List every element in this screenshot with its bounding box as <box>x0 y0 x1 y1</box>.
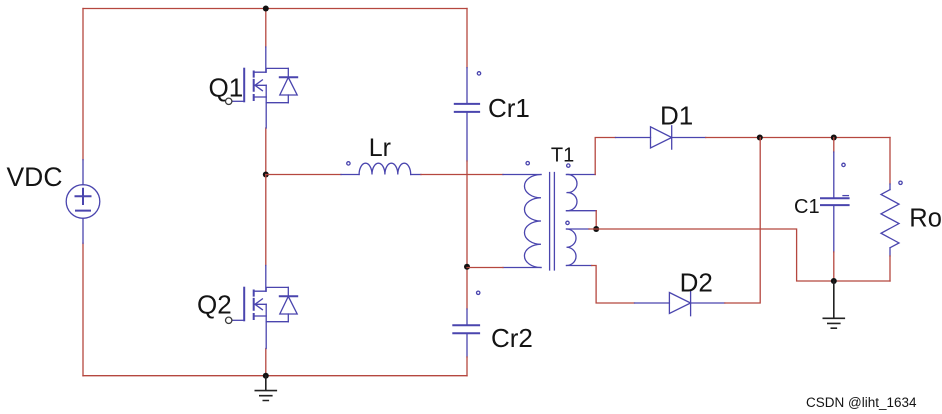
wire node to Lr <box>266 174 341 176</box>
wire Q1 source to node <box>265 128 267 175</box>
svg-text:Ro: Ro <box>909 205 942 233</box>
transformer T1 <box>503 173 596 271</box>
capacitor Cr2 <box>453 309 479 357</box>
wire primary bottom to junction <box>467 267 503 269</box>
wire D2 cathode up to output rail <box>725 138 760 304</box>
wire Cr2 to bottom rail <box>466 357 468 376</box>
capacitor C1 <box>821 138 849 253</box>
svg-text:CSDN @liht_1634: CSDN @liht_1634 <box>806 395 917 410</box>
pin marker Cr2 <box>477 291 480 294</box>
ground under Q2 <box>255 376 276 401</box>
ground under C1 <box>823 281 844 328</box>
pin marker T1 secondary bottom dot <box>566 221 569 224</box>
svg-text:Q1: Q1 <box>209 73 244 103</box>
svg-text:Q2: Q2 <box>197 290 232 320</box>
pin marker Cr1 <box>477 72 480 75</box>
wire top rail <box>83 8 467 10</box>
svg-text:Cr2: Cr2 <box>491 323 533 353</box>
node primary bottom junction <box>464 264 470 270</box>
svg-text:Cr1: Cr1 <box>488 93 530 123</box>
wire Cr branch top <box>466 9 468 68</box>
node bottom rail junction <box>263 373 269 379</box>
source VDC <box>66 160 100 244</box>
svg-text:D1: D1 <box>660 101 693 131</box>
node C1 top junction <box>831 135 837 141</box>
node tap junction <box>593 226 599 232</box>
diode D2 <box>635 290 725 316</box>
svg-text:Lr: Lr <box>369 134 391 162</box>
pin marker Lr <box>347 162 350 165</box>
wire Q1 drain from top rail <box>265 9 267 48</box>
pin marker C1 <box>842 163 845 166</box>
capacitor Cr1 <box>455 68 479 161</box>
wire Ro top <box>889 138 891 185</box>
wire node to Q2 <box>265 175 267 266</box>
wire C1 bottom <box>833 252 835 281</box>
node D2 return junction <box>757 135 763 141</box>
svg-text:VDC: VDC <box>7 162 63 192</box>
svg-text:D2: D2 <box>680 267 713 297</box>
resistor Ro <box>881 184 899 256</box>
transistor Q1 <box>226 47 298 128</box>
pin marker Ro <box>899 181 902 184</box>
inductor Lr <box>341 163 421 174</box>
pin marker T1 primary dot <box>526 162 529 165</box>
wire bottom rail <box>83 375 467 377</box>
node output bottom junction <box>831 278 837 284</box>
wire tap to step <box>589 229 890 281</box>
node top rail junction <box>263 6 269 12</box>
wire secondary bottom to D2 <box>592 266 635 304</box>
wire left rail lower <box>82 243 84 376</box>
wire Cr1 to primary junction <box>466 161 468 309</box>
node mid junction <box>263 172 269 178</box>
wire Ro bottom <box>889 256 891 281</box>
transistor Q2 <box>226 266 298 349</box>
svg-text:T1: T1 <box>551 145 574 167</box>
wire secondary tap vertical <box>595 211 597 229</box>
wire Lr to transformer <box>421 174 503 176</box>
pin marker T1 secondary top dot <box>567 164 570 167</box>
wire D1 to output rail <box>706 137 890 139</box>
wire secondary top to D1 <box>595 138 615 175</box>
svg-text:C1: C1 <box>794 196 820 218</box>
wire Q2 source to bottom rail <box>265 349 267 376</box>
diode D1 <box>616 126 706 149</box>
wire left rail upper <box>82 9 84 160</box>
